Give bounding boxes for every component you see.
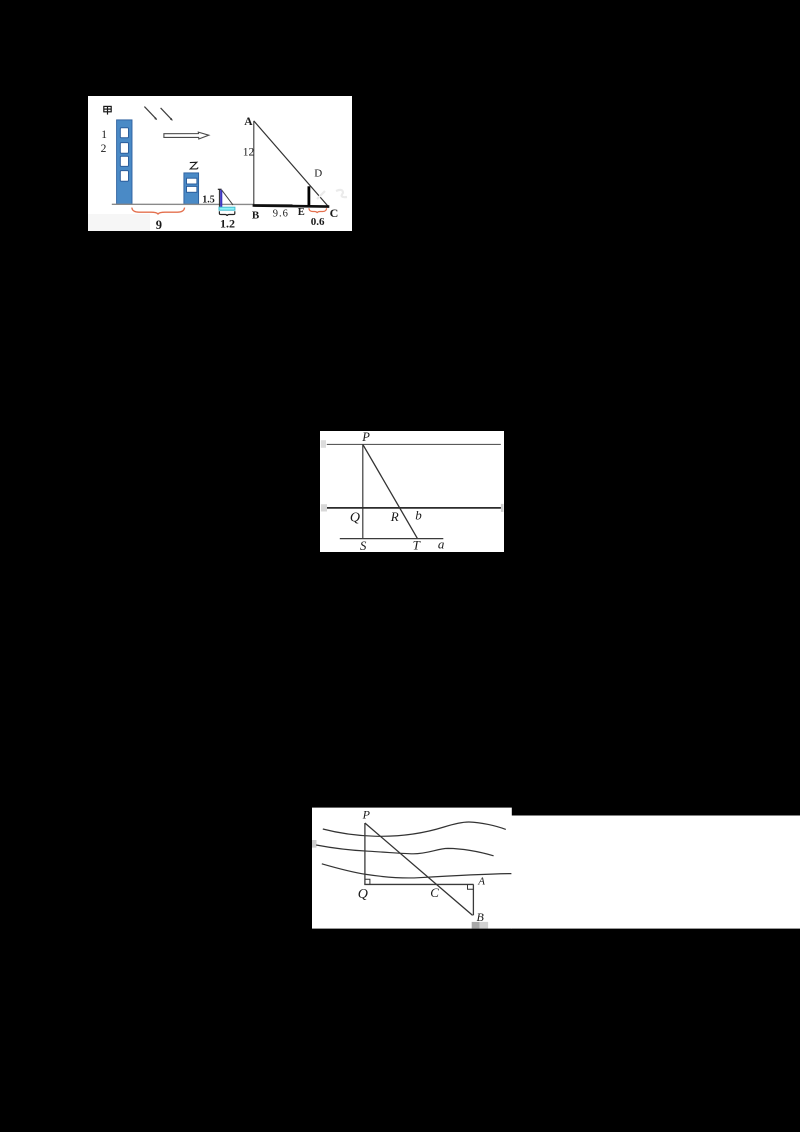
- svg-text:1: 1: [101, 129, 107, 141]
- triangle hypotenuse AC: [254, 121, 328, 206]
- ground line: [112, 203, 293, 205]
- label A: [477, 875, 485, 887]
- red brace (0.6) between E and C: [309, 208, 327, 213]
- svg-text:a: a: [438, 537, 445, 552]
- gray cap right of line b: [501, 504, 504, 512]
- segment QA (horizontal): [364, 883, 473, 885]
- svg-text:R: R: [390, 509, 399, 524]
- panel 3 white background (stepped): [312, 808, 800, 929]
- black bracket under shadow: [219, 211, 234, 216]
- river bank curve 1 (top): [323, 822, 506, 836]
- panel 1 white background: [88, 96, 352, 231]
- label Q: [350, 511, 360, 526]
- figure panel 2: transversal across parallel lines a, b: [320, 431, 504, 552]
- svg-text:T: T: [413, 537, 421, 552]
- segment DE (thick): [307, 186, 310, 205]
- gray smudge at top line left: [321, 440, 326, 448]
- label 9: [156, 218, 162, 232]
- building 乙 windows: [187, 178, 197, 192]
- svg-text:P: P: [362, 808, 371, 822]
- horizontal outlined arrow: [164, 132, 209, 139]
- label B: [252, 210, 260, 222]
- label R: [390, 509, 399, 524]
- svg-text:2: 2: [101, 143, 107, 155]
- label P: [362, 808, 371, 822]
- gray mark at left edge: [312, 840, 317, 848]
- segment PB (diagonal through C): [365, 823, 473, 915]
- label b: [415, 508, 422, 523]
- pole dark line with top tick: [218, 189, 222, 207]
- river bank curve 3 (bottom): [322, 864, 512, 878]
- label T: [413, 537, 421, 552]
- svg-text:B: B: [252, 210, 260, 222]
- figure panel 3: river banks with right triangle PQB: [312, 807, 800, 929]
- label E: [298, 207, 305, 218]
- figure panel 1: buildings and shadows similar-triangles diagram: [88, 96, 352, 231]
- triangle base BC (thick): [253, 206, 330, 207]
- label Q: [358, 887, 368, 902]
- sun ray 1: [144, 107, 157, 121]
- label S: [360, 538, 367, 553]
- svg-text:b: b: [415, 508, 422, 523]
- segment PQ (vertical): [364, 823, 366, 884]
- pole (blue, height 1.5): [220, 190, 222, 207]
- label 0.6: [311, 216, 325, 228]
- label 12 (triangle height): [243, 146, 255, 158]
- svg-text:D: D: [314, 167, 322, 179]
- segment AB (vertical): [472, 884, 474, 915]
- svg-text:S: S: [360, 538, 367, 552]
- panel 2 white background: [320, 431, 504, 552]
- label 9.6: [273, 208, 289, 219]
- middle line b: [322, 507, 502, 509]
- building 甲 (tall blue): [117, 120, 132, 204]
- label a: [438, 537, 445, 552]
- red brace (9) between buildings: [132, 208, 185, 214]
- svg-text:A: A: [477, 875, 485, 887]
- label P: [361, 430, 370, 444]
- faint watermark strokes: [317, 190, 347, 199]
- svg-text:9: 9: [156, 218, 162, 231]
- label 1.2: [220, 216, 235, 230]
- right angle mark at A: [468, 884, 474, 889]
- svg-text:Q: Q: [358, 887, 368, 902]
- label C: [430, 885, 439, 900]
- svg-text:1.5: 1.5: [202, 194, 215, 205]
- label D: [314, 167, 322, 179]
- label 乙 (drawn glyph): [190, 162, 198, 169]
- right angle mark at Q: [365, 879, 370, 884]
- top horizontal line: [327, 443, 501, 445]
- gray marks at bottom edge: [472, 922, 488, 929]
- svg-text:Q: Q: [350, 511, 360, 526]
- svg-text:12: 12: [243, 146, 255, 158]
- svg-text:9.6: 9.6: [273, 208, 289, 219]
- river bank curve 2 (middle): [316, 845, 493, 856]
- segment P to T (transversal): [363, 444, 418, 538]
- svg-text:1.2: 1.2: [220, 216, 235, 230]
- bottom line a: [340, 538, 444, 540]
- svg-text:E: E: [298, 207, 305, 218]
- segment P to S (vertical): [362, 444, 364, 538]
- triangle side AB (vertical): [253, 121, 255, 206]
- svg-text:0.6: 0.6: [311, 216, 325, 228]
- label 12 (storey height, stacked): [101, 129, 108, 155]
- label 1.5: [202, 194, 215, 205]
- label A: [244, 116, 253, 128]
- building 乙 (short blue): [184, 173, 199, 204]
- svg-text:P: P: [361, 431, 370, 444]
- svg-text:C: C: [330, 206, 339, 220]
- pole shadow hypotenuse: [222, 190, 233, 205]
- building 甲 windows: [120, 128, 128, 182]
- label B: [477, 910, 485, 924]
- gray cap left of line b: [321, 504, 327, 511]
- label 甲 (drawn glyph): [104, 106, 111, 114]
- svg-text:A: A: [244, 116, 253, 128]
- svg-text:C: C: [430, 885, 439, 900]
- label C: [330, 206, 339, 220]
- sun ray 2: [161, 108, 173, 121]
- cyan shadow bar (1.2): [219, 207, 235, 210]
